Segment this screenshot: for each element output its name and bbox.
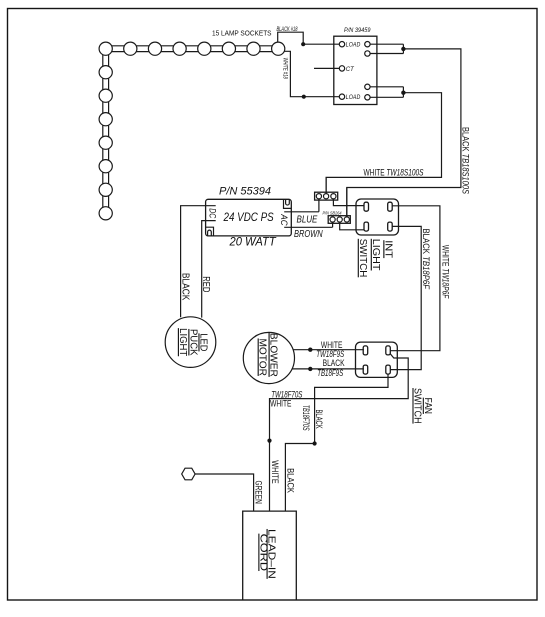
svg-text:RED: RED bbox=[200, 276, 211, 292]
svg-text:DC: DC bbox=[206, 208, 217, 218]
svg-text:WHITE TW18P6F: WHITE TW18P6F bbox=[440, 245, 450, 299]
svg-text:LIGHT: LIGHT bbox=[370, 239, 382, 271]
svg-text:MOTOR: MOTOR bbox=[257, 338, 269, 376]
svg-text:CORD: CORD bbox=[257, 534, 268, 571]
svg-text:SWITCH: SWITCH bbox=[357, 239, 369, 277]
svg-text:INT: INT bbox=[382, 240, 394, 259]
svg-text:BLACK TB18P6F: BLACK TB18P6F bbox=[421, 229, 431, 290]
svg-text:TB18F70S: TB18F70S bbox=[301, 405, 311, 431]
svg-text:WHITE TW18S100S: WHITE TW18S100S bbox=[364, 168, 424, 178]
svg-text:CT: CT bbox=[346, 67, 355, 73]
svg-text:24 VDC PS: 24 VDC PS bbox=[223, 210, 274, 224]
svg-text:LIGHT: LIGHT bbox=[177, 328, 189, 357]
svg-text:SWITCH: SWITCH bbox=[412, 388, 423, 424]
svg-text:LOAD: LOAD bbox=[346, 43, 361, 49]
svg-text:AC: AC bbox=[278, 213, 289, 225]
svg-text:BLUE: BLUE bbox=[297, 213, 319, 225]
svg-text:P/N 39459: P/N 39459 bbox=[344, 27, 371, 34]
svg-text:GREEN: GREEN bbox=[253, 481, 263, 504]
svg-text:LOAD: LOAD bbox=[346, 95, 361, 101]
svg-text:P/N 55394: P/N 55394 bbox=[219, 186, 271, 198]
svg-text:WHITE #18: WHITE #18 bbox=[282, 58, 288, 80]
svg-text:BROWN: BROWN bbox=[294, 228, 323, 240]
svg-text:BLACK: BLACK bbox=[286, 468, 296, 493]
svg-text:TB18F9S: TB18F9S bbox=[317, 368, 343, 378]
svg-text:20 WATT: 20 WATT bbox=[229, 237, 277, 249]
svg-text:BLACK: BLACK bbox=[179, 273, 190, 301]
svg-text:BLACK #18: BLACK #18 bbox=[277, 27, 298, 33]
svg-text:BLACK TB18S100S: BLACK TB18S100S bbox=[460, 127, 470, 194]
svg-text:BLACK: BLACK bbox=[314, 410, 324, 429]
svg-text:15 LAMP SOCKETS: 15 LAMP SOCKETS bbox=[212, 29, 272, 38]
svg-text:WHITE: WHITE bbox=[270, 399, 291, 409]
svg-text:BLACK: BLACK bbox=[323, 358, 345, 368]
svg-text:P/N SB264: P/N SB264 bbox=[323, 210, 342, 215]
svg-text:WHITE: WHITE bbox=[270, 460, 280, 483]
